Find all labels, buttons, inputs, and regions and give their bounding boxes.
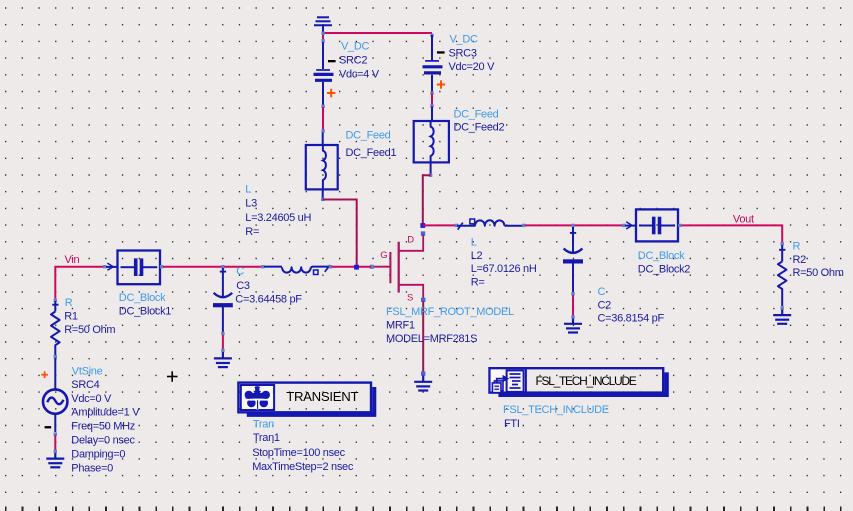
pin (C2 ground) [571,315,574,318]
pin (R2 top) [781,242,784,245]
wire SRC2 to DC_Feed1 [322,107,324,130]
svg-text:Phase=0: Phase=0 [71,463,113,475]
svg-text:V_DC: V_DC [450,34,478,46]
svg-text:Amplitude=1 V: Amplitude=1 V [71,406,140,418]
svg-text:Damping=0: Damping=0 [71,449,125,461]
DC_Block DC_Block2 [625,209,678,241]
FSL_TECH_INCLUDE divider [525,368,527,392]
svg-text:D: D [407,234,414,245]
svg-text:V_DC: V_DC [341,41,369,53]
pin (SRC2 plus terminal) [321,39,324,42]
ground (SRC4) [46,453,64,467]
minus sign SRC3 [437,51,445,53]
FSL_TECH_INCLUDE box [490,368,664,392]
arrow tick (L2 left) [458,223,463,230]
svg-text:R=: R= [471,276,485,288]
svg-text:Vdc=4 V: Vdc=4 V [339,69,380,81]
svg-text:Tran1: Tran1 [253,432,280,444]
capacitor C3 [214,268,233,332]
ground (R2) [773,310,791,324]
pin (DC_Feed1 top) [321,129,324,132]
plus sign SRC3 [437,80,445,88]
pin (DC_Block2 left) [622,224,625,227]
wire R1 to VtSine [54,358,56,390]
origin cross marker [167,371,178,382]
svg-text:DC_Block2: DC_Block2 [638,264,691,276]
svg-text:L2: L2 [471,250,483,262]
pin (ground/SRC2) [321,32,324,35]
svg-text:C=3.64458 pF: C=3.64458 pF [235,294,302,306]
svg-text:SRC3: SRC3 [449,48,477,60]
svg-text:MaxTimeStep=2 nsec: MaxTimeStep=2 nsec [252,461,354,473]
TRANSIENT controller shadow [247,387,377,417]
svg-text:R1: R1 [64,311,78,323]
svg-text:DC_Block: DC_Block [638,250,685,262]
pin (L2 right) [522,224,525,227]
wire C3 to ground [222,335,224,349]
FSL_TECH_INCLUDE icon pages [494,381,503,391]
svg-text:L3: L3 [245,198,257,210]
svg-text:R=50 Ohm: R=50 Ohm [64,324,115,336]
wire DC_Feed2 to drain node [423,175,431,225]
V_DC source SRC3 [430,34,433,37]
pin1 square marker (L2) [470,219,475,224]
pin (SRC4 bottom) [54,432,57,435]
svg-text:StopTime=100 nsec: StopTime=100 nsec [252,447,345,459]
pin (source ground) [421,371,425,375]
pin (DC_Feed1 bottom) [321,198,324,201]
arrow tick (DC_Block2 input) [626,222,632,229]
ground G1 (top, flipped) [314,17,332,33]
inductor L3 [264,267,330,273]
DC_Block DC_Block1 [106,251,160,285]
pin (L3 left) [261,265,264,268]
wire drain node to L2 [423,224,456,226]
arrow tick (DC_Block1 input) [107,263,113,270]
svg-text:C3: C3 [236,280,250,292]
pin (R1 bottom) [54,355,57,358]
pin (transistor drain) [421,231,425,235]
wire SRC3 to DC_Feed2 [431,94,433,106]
svg-text:C: C [598,286,606,298]
wire source to ground [422,301,424,373]
svg-text:Vdc=20 V: Vdc=20 V [449,61,496,73]
svg-text:C2: C2 [598,299,612,311]
lead VtSine bottom [54,413,56,432]
svg-text:DC_Block1: DC_Block1 [119,306,172,318]
pin (C2 bottom) [571,292,574,295]
junction (drain node) [420,223,425,228]
svg-text:DC_Feed: DC_Feed [346,130,391,142]
pin1 square marker (L3) [314,270,319,275]
svg-text:Vout: Vout [733,214,754,226]
svg-text:R2: R2 [793,254,807,266]
pin (DC_Block2 right) [678,224,681,227]
svg-text:FTI: FTI [504,418,520,430]
wire DC_Block2 to R2 [682,225,783,242]
TRANSIENT icon cell fill [242,386,273,409]
svg-text:Freq=50 MHz: Freq=50 MHz [71,420,135,432]
pin (SRC3 bottom) [430,91,433,94]
svg-text:L: L [245,184,251,196]
pin (DC_Block1 left) [103,265,106,268]
ground (C3) [214,352,232,367]
capacitor C2 [564,227,583,292]
pin (DC_Block1 right) [160,265,163,268]
pin (L2 left) [455,224,458,227]
pin (C2 tap) [571,224,574,227]
DC_Feed DC_Feed1 [306,133,338,199]
pin (R2 bottom) [781,306,784,309]
svg-text:R=: R= [245,226,259,238]
svg-text:SRC2: SRC2 [339,54,367,66]
svg-text:TRANSIENT: TRANSIENT [286,389,358,404]
sine wave (SRC4) [47,398,63,405]
pin (C3 tap) [221,265,224,268]
junction (gate node) [354,265,359,270]
TRANSIENT icon cell [241,385,274,410]
svg-text:DC_Feed1: DC_Feed1 [346,147,397,159]
plus sign SRC4 [41,371,48,378]
ground (C2) [564,319,582,333]
svg-text:FSL_MRF_ROOT_MODEL: FSL_MRF_ROOT_MODEL [386,306,514,318]
svg-text:SRC4: SRC4 [71,379,99,391]
plus sign SRC2 [327,89,335,97]
resistor R1 [54,299,57,302]
svg-text:FSL_TECH_INCLUDE: FSL_TECH_INCLUDE [536,374,637,388]
svg-text:R: R [65,297,73,309]
svg-text:Delay=0 nsec: Delay=0 nsec [71,435,135,447]
pin (DC_Feed2 top) [430,104,433,107]
svg-text:L: L [471,237,477,249]
pin (SRC4 ground) [54,450,57,453]
wire L2 to DC_Block2 [525,224,623,226]
wire SRC4 to ground [54,435,56,450]
svg-text:Vdc=0 V: Vdc=0 V [71,393,112,405]
FSL_TECH_INCLUDE icon arrow [497,379,503,383]
inductor L2 [457,220,524,226]
DC_Feed DC_Feed2 [414,107,449,175]
FSL_TECH_INCLUDE icon document [507,370,524,392]
svg-text:DC_Feed2: DC_Feed2 [454,122,505,134]
pin (C3 ground) [221,349,224,352]
wire Vin corner [55,267,103,299]
wire DC_Feed1 to gate node [323,200,357,267]
wire stub SRC2 top [322,33,324,41]
V_DC source SRC2 [314,42,334,105]
svg-text:C: C [236,266,244,278]
source VtSine SRC4 [43,389,67,413]
svg-text:R=50 Ohm: R=50 Ohm [793,267,844,279]
FSL_TECH_INCLUDE shadow [498,372,668,397]
svg-text:MRF1: MRF1 [386,319,415,331]
pin (DC_Feed2 bottom) [429,174,432,177]
svg-text:L=67.0126 nH: L=67.0126 nH [471,263,537,275]
svg-text:DC_Feed: DC_Feed [454,108,499,120]
resistor R2 [778,245,787,306]
wire L3 to gate [332,266,372,268]
svg-text:VtSine: VtSine [72,365,103,377]
wire C2 to ground [572,295,574,316]
TRANSIENT icon glyph [245,386,270,407]
svg-text:DC_Block: DC_Block [119,292,166,304]
svg-text:MODEL=MRF281S: MODEL=MRF281S [386,333,477,345]
minus sign SRC4 [45,426,52,428]
svg-text:R: R [793,241,801,253]
wire DC_Block1 to L3 [163,266,263,268]
pin (transistor source) [421,298,425,302]
pin (C3 bottom) [221,332,224,335]
pin (L3 right) [329,265,332,268]
FSL_TECH_INCLUDE icon cell fill [491,369,525,391]
svg-text:S: S [407,292,413,303]
pin (SRC2 bottom) [321,105,324,108]
transistor MRF1 [373,235,424,299]
wire top rail [323,32,432,34]
svg-text:C=36.8154 pF: C=36.8154 pF [598,313,665,325]
pin (transistor gate) [370,265,374,269]
svg-text:Tran: Tran [253,419,274,431]
ground (transistor source) [414,376,432,391]
svg-text:G: G [380,250,387,261]
svg-text:L=3.24605 uH: L=3.24605 uH [245,212,311,224]
svg-text:FSL_TECH_INCLUDE: FSL_TECH_INCLUDE [503,404,609,416]
svg-text:Vin: Vin [65,254,80,266]
arrow tick (L3 right) [325,265,330,272]
minus sign SRC2 [328,60,336,62]
TRANSIENT controller box [238,383,371,413]
